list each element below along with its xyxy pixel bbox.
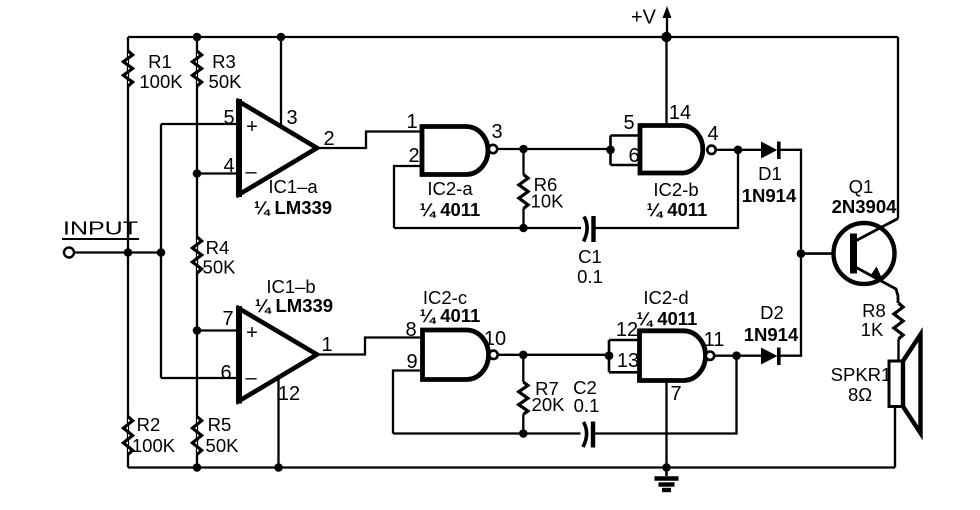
wire IC2-b output xyxy=(716,149,763,151)
svg-text:11: 11 xyxy=(704,329,725,351)
svg-text:3: 3 xyxy=(286,107,297,129)
wire IC1-a pin 3 vertical xyxy=(280,37,282,126)
ground xyxy=(655,468,679,491)
wire IC2-c pin9 feedback xyxy=(393,371,423,434)
svg-text:2N3904: 2N3904 xyxy=(832,196,898,217)
svg-text:R3: R3 xyxy=(212,51,236,72)
svg-text:1K: 1K xyxy=(861,319,884,340)
wire feedback row2 right xyxy=(595,356,737,434)
svg-text:13: 13 xyxy=(617,350,639,372)
node R5 bottom xyxy=(193,463,202,472)
svg-text:R2: R2 xyxy=(137,414,161,435)
svg-text:7: 7 xyxy=(670,383,681,405)
wire IC2-d input bar xyxy=(609,340,640,372)
svg-text:0.1: 0.1 xyxy=(574,395,600,416)
svg-text:Q1: Q1 xyxy=(849,176,874,197)
wire IC2-a pin2 feedback xyxy=(394,166,422,228)
svg-text:50K: 50K xyxy=(209,71,243,92)
svg-text:IC2-d: IC2-d xyxy=(643,287,688,308)
node top pin3 xyxy=(277,33,286,42)
nand gate IC2-c xyxy=(405,287,506,380)
svg-text:0.1: 0.1 xyxy=(577,266,603,287)
node base xyxy=(797,249,806,258)
svg-text:¼ LM339: ¼ LM339 xyxy=(255,295,333,316)
node pin4 xyxy=(193,169,202,178)
svg-text:IC1–b: IC1–b xyxy=(266,276,315,297)
svg-text:¼ 4011: ¼ 4011 xyxy=(420,305,481,326)
wire feedback row2 left xyxy=(393,432,581,434)
node R6 bottom xyxy=(519,224,528,233)
svg-text:IC1–a: IC1–a xyxy=(268,176,318,197)
node input left xyxy=(124,248,133,257)
wire feedback row1 left xyxy=(394,227,581,229)
wire D2 to base node xyxy=(779,254,801,356)
wire to IC1-a pin 4 xyxy=(197,172,239,174)
svg-text:12: 12 xyxy=(616,319,638,341)
resistor R8 xyxy=(861,300,903,361)
svg-text:100K: 100K xyxy=(139,71,183,92)
transistor Q1 xyxy=(832,176,898,303)
wire to IC1-a pin 5 xyxy=(161,123,239,125)
svg-text:–: – xyxy=(245,367,257,389)
wire input horizontal xyxy=(74,251,161,253)
svg-text:¼ 4011: ¼ 4011 xyxy=(647,199,708,220)
wire to IC1-b pin 7 xyxy=(197,329,239,331)
nand gate IC2-b xyxy=(623,102,718,220)
svg-text:INPUT: INPUT xyxy=(63,218,138,239)
node pin7 xyxy=(193,326,202,335)
wire IC2-d pin7 to ground rail xyxy=(665,381,667,468)
resistor R3 xyxy=(192,51,242,92)
node IC2-b input xyxy=(606,146,615,155)
svg-text:C1: C1 xyxy=(578,246,602,267)
resistor R2 xyxy=(123,414,175,456)
svg-text:10K: 10K xyxy=(531,191,565,212)
wire IC1-a output to IC2-a pin1 xyxy=(317,132,422,149)
wire base horizontal xyxy=(801,252,851,255)
wire IC2-c output xyxy=(498,354,609,356)
nand gate IC2-d xyxy=(616,287,725,405)
node R6 top xyxy=(519,145,528,154)
svg-text:100K: 100K xyxy=(132,435,176,456)
resistor R7 xyxy=(519,355,565,434)
wire to IC1-b pin 6 xyxy=(161,377,239,379)
resistor R4 xyxy=(192,237,236,278)
nand gate IC2-a xyxy=(406,111,502,220)
wire IC2-b pin14 xyxy=(665,37,667,126)
wire IC2-d output xyxy=(714,355,763,357)
wire top rail xyxy=(128,36,898,38)
svg-text:5: 5 xyxy=(223,107,234,129)
svg-text:14: 14 xyxy=(669,102,691,124)
node IC2-d output xyxy=(732,351,741,360)
wire IC1-b pin12 xyxy=(277,378,279,468)
node top R3 xyxy=(193,33,202,42)
svg-text:D2: D2 xyxy=(760,302,784,323)
wire IC2-b input bar xyxy=(611,136,641,166)
node IC2-b output xyxy=(734,146,743,155)
node pin12 bottom xyxy=(274,463,283,472)
svg-text:IC2-b: IC2-b xyxy=(653,179,698,200)
svg-text:IC2-a: IC2-a xyxy=(427,178,473,199)
wire left vertical R1/R2 line xyxy=(127,37,129,468)
resistor R6 xyxy=(519,149,564,228)
svg-text:2: 2 xyxy=(323,128,334,150)
svg-text:R8: R8 xyxy=(862,300,886,321)
resistor R1 xyxy=(123,51,183,92)
capacitor C2 xyxy=(573,377,599,448)
svg-text:20K: 20K xyxy=(532,394,566,415)
wire right rail xyxy=(897,37,899,219)
svg-text:¼ 4011: ¼ 4011 xyxy=(420,199,481,220)
power +V xyxy=(631,6,672,37)
node ground xyxy=(662,463,671,472)
svg-text:R5: R5 xyxy=(208,414,232,435)
svg-text:7: 7 xyxy=(222,308,233,330)
wire R3/R4/R5 vertical xyxy=(196,37,198,468)
svg-text:¼ LM339: ¼ LM339 xyxy=(254,197,332,218)
svg-text:2: 2 xyxy=(408,145,419,167)
svg-text:4: 4 xyxy=(223,155,234,177)
svg-text:50K: 50K xyxy=(203,257,237,278)
svg-text:¼ 4011: ¼ 4011 xyxy=(637,308,698,329)
svg-text:1N914: 1N914 xyxy=(744,324,799,345)
wire IC1-b output to IC2-c pin8 xyxy=(317,338,423,355)
svg-text:12: 12 xyxy=(278,383,300,405)
svg-text:6: 6 xyxy=(628,145,639,167)
svg-text:8: 8 xyxy=(405,319,416,341)
node IC2-d input xyxy=(605,351,614,360)
svg-text:3: 3 xyxy=(491,121,502,143)
node R7 bottom xyxy=(519,429,528,438)
op-amp IC1-b xyxy=(220,276,333,405)
input terminal INPUT xyxy=(62,218,139,258)
op-amp IC1-a xyxy=(223,99,334,218)
speaker SPKR1 xyxy=(831,335,921,468)
node +V xyxy=(661,32,671,42)
wire input vertical xyxy=(160,124,162,378)
svg-text:4: 4 xyxy=(707,123,718,145)
diode D1 xyxy=(742,142,797,207)
svg-text:R4: R4 xyxy=(206,237,230,258)
svg-text:+: + xyxy=(246,116,258,138)
svg-text:1: 1 xyxy=(406,111,417,133)
wire bottom rail xyxy=(128,466,895,468)
resistor R5 xyxy=(192,414,239,456)
svg-text:+V: +V xyxy=(631,7,657,29)
svg-text:1N914: 1N914 xyxy=(742,185,797,206)
svg-text:–: – xyxy=(245,161,257,183)
capacitor C1 xyxy=(577,216,603,287)
svg-text:+: + xyxy=(246,322,258,344)
wire IC2-a output xyxy=(497,148,610,150)
node R7 top xyxy=(519,351,528,360)
wire feedback row1 right xyxy=(596,150,739,228)
svg-text:6: 6 xyxy=(220,362,231,384)
node input right xyxy=(157,248,166,257)
svg-text:8Ω: 8Ω xyxy=(848,384,872,405)
svg-text:R1: R1 xyxy=(148,51,172,72)
svg-text:5: 5 xyxy=(623,112,634,134)
svg-text:1: 1 xyxy=(321,334,332,356)
svg-text:10: 10 xyxy=(484,328,506,350)
wire D1 to base node xyxy=(779,150,801,254)
diode D2 xyxy=(744,302,799,365)
svg-text:SPKR1: SPKR1 xyxy=(831,364,892,385)
svg-text:D1: D1 xyxy=(758,163,782,184)
svg-text:50K: 50K xyxy=(206,435,240,456)
